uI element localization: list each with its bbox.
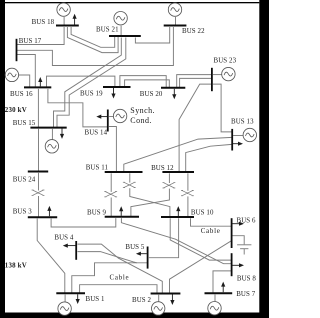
wire bus 21 generator stub	[120, 26, 122, 36]
bus 11 bar	[105, 171, 143, 173]
wire bus 16 generator stub	[19, 75, 30, 87]
load arrow bus 3	[47, 206, 51, 216]
svg-text:BUS 15: BUS 15	[13, 120, 36, 127]
wire bus 2 generator stub	[158, 295, 160, 302]
wire 14-16	[48, 89, 108, 127]
svg-text:BUS 22: BUS 22	[182, 28, 205, 35]
svg-text:BUS 7: BUS 7	[236, 291, 256, 298]
wire 3-9	[51, 218, 116, 227]
generator at bus 21	[114, 12, 127, 25]
reactor plate 2 at bus 6	[240, 248, 248, 250]
bus 23 bar	[211, 68, 213, 91]
wire 2-6	[170, 241, 232, 293]
wire 9-12 transformer upper lead	[168, 173, 170, 183]
wire 21-22	[135, 27, 169, 43]
wire 9-11 transformer lower lead	[110, 198, 112, 217]
generator at bus 7	[208, 302, 221, 315]
wire bus 15 generator stub	[51, 129, 53, 140]
svg-text:BUS 6: BUS 6	[237, 217, 257, 224]
bus 14 bar	[107, 110, 109, 132]
wire bus 6 reactor lead	[233, 236, 245, 245]
load arrow bus 2	[170, 295, 174, 306]
load arrow bus 6	[232, 222, 244, 226]
svg-text:Cond.: Cond.	[130, 116, 152, 125]
wire 19-20 circuit 2	[125, 80, 170, 87]
wire 12-13	[186, 144, 232, 171]
reactor tail stub at bus 6	[243, 249, 245, 255]
wire bus 13 generator stub	[233, 135, 243, 137]
wire 8-9	[121, 218, 231, 264]
bus 16 bar	[24, 86, 51, 88]
wire 17-18	[17, 27, 64, 45]
svg-text:BUS 14: BUS 14	[85, 130, 108, 137]
wire 19-20 circuit 1	[120, 76, 166, 88]
svg-text:BUS 19: BUS 19	[80, 91, 103, 98]
svg-text:BUS 16: BUS 16	[10, 91, 33, 98]
bus 3 bar	[28, 216, 57, 218]
svg-text:BUS 13: BUS 13	[231, 118, 254, 125]
wire 12-23	[179, 84, 212, 171]
generator at bus 23	[222, 67, 235, 80]
bus 19 bar	[103, 86, 131, 88]
svg-text:138 kV: 138 kV	[5, 262, 27, 269]
wire 9-12 transformer lower lead	[131, 189, 170, 217]
transformer 10-11	[123, 182, 136, 187]
wire 17-22	[17, 27, 173, 66]
load arrow bus 14	[96, 115, 107, 119]
wire 15-16	[37, 89, 39, 127]
load arrow bus 20	[172, 89, 176, 100]
wire 4-5 tap	[78, 252, 138, 263]
bus 22 bar	[164, 25, 187, 27]
bus 12 bar	[162, 171, 194, 173]
wire 11-13	[124, 137, 232, 171]
wire 15-24	[38, 129, 40, 171]
svg-text:BUS 4: BUS 4	[54, 235, 74, 242]
load arrow bus 10	[176, 206, 180, 216]
svg-text:BUS 2: BUS 2	[132, 297, 152, 304]
frame: right black bar	[259, 0, 269, 318]
wire 15-21 circuit 2	[57, 38, 126, 128]
load arrow bus 8	[232, 263, 244, 267]
generator at bus 18	[57, 3, 70, 16]
bus 20 bar	[161, 87, 185, 89]
frame: left black bar	[0, 0, 5, 318]
svg-text:BUS 24: BUS 24	[13, 177, 36, 184]
load arrow bus 1	[76, 294, 80, 304]
wire bus 23 generator stub	[213, 74, 222, 76]
generator at bus 15	[45, 140, 58, 153]
reactor plate 1 at bus 6	[237, 244, 251, 246]
svg-text:BUS 1: BUS 1	[86, 296, 106, 303]
bus 15 bar	[30, 127, 66, 129]
wire 1-5	[72, 263, 148, 293]
wire 10-11 transformer upper lead	[129, 173, 131, 182]
wire 18-21 circuit 1	[67, 27, 118, 53]
synchronous condenser at bus 14	[113, 109, 126, 122]
wire 16-19	[47, 76, 115, 87]
wire 10-11 transformer lower lead	[130, 188, 170, 217]
generator at bus 16	[5, 68, 18, 81]
svg-text:BUS 18: BUS 18	[32, 19, 55, 26]
bus 9 bar	[105, 216, 139, 218]
bus 1 bar	[56, 292, 85, 294]
bus 7 bar	[205, 292, 233, 294]
transformer 9-12	[163, 183, 176, 188]
wire 10-12 transformer lower lead	[187, 196, 189, 216]
svg-text:Synch.: Synch.	[130, 106, 155, 115]
svg-text:BUS 9: BUS 9	[87, 209, 107, 216]
wire 9-11 transformer upper lead	[110, 173, 112, 192]
generator at bus 2	[152, 302, 165, 315]
wire bus 7 generator stub	[214, 295, 216, 302]
wire bus 14 synchronous condenser stub	[109, 116, 114, 118]
svg-text:230 kV: 230 kV	[5, 107, 27, 114]
wire cable 6-10	[191, 218, 232, 226]
svg-text:BUS 20: BUS 20	[140, 91, 163, 98]
svg-text:BUS 10: BUS 10	[191, 209, 214, 216]
wire bus 1 generator stub	[64, 295, 66, 303]
wire 8-10	[170, 218, 232, 260]
svg-text:BUS 8: BUS 8	[237, 275, 257, 282]
wire 5-10	[149, 218, 179, 257]
wire 15-21 circuit 1	[54, 38, 122, 128]
bus 24 bar	[28, 171, 48, 173]
load arrow bus 13	[233, 142, 243, 146]
generator at bus 22	[168, 3, 181, 16]
bus 21 bar	[109, 35, 141, 37]
load arrow bus 19	[111, 88, 115, 99]
wire 20-23 circuit 2	[180, 78, 212, 87]
wire 18-21 circuit 2	[71, 27, 115, 47]
svg-text:BUS 23: BUS 23	[214, 58, 237, 65]
wire transformer X1 to bus 3	[38, 196, 40, 217]
wire bus 18 generator stub	[63, 17, 65, 25]
svg-text:Cable: Cable	[110, 274, 130, 282]
wire 20-23 circuit 1	[177, 75, 212, 88]
bus 6 bar	[231, 218, 233, 248]
svg-text:BUS 17: BUS 17	[19, 38, 42, 45]
wire 13-23	[213, 84, 232, 132]
bus 8 bar	[231, 253, 233, 276]
generator at bus 1	[58, 302, 71, 315]
load arrow bus 15	[60, 128, 64, 139]
bus 4 bar	[75, 241, 77, 260]
bus 18 bar	[56, 25, 79, 27]
bus 5 bar	[147, 247, 149, 269]
wire cable 1-2	[80, 285, 157, 294]
wire 16-17	[17, 55, 35, 87]
svg-text:BUS 12: BUS 12	[151, 165, 174, 172]
load arrow bus 7	[221, 282, 225, 293]
wire 2-4	[78, 244, 163, 293]
transformer 9-11	[104, 192, 117, 197]
wire 11-14	[109, 127, 117, 172]
transformer 3-24	[32, 190, 45, 195]
wire 24 to transformer X1	[38, 173, 40, 191]
svg-text:BUS 11: BUS 11	[86, 165, 109, 172]
load arrow bus 5	[136, 252, 147, 256]
svg-text:Cable: Cable	[201, 227, 221, 235]
wire bus 22 generator stub	[175, 17, 177, 25]
bus 13 bar	[231, 129, 233, 151]
wire 7-8	[213, 271, 231, 293]
bus 10 bar	[161, 216, 194, 218]
bus 2 bar	[151, 293, 181, 295]
wire 1-3	[37, 219, 65, 293]
generator at bus 13	[243, 128, 256, 141]
wire 10-12 transformer upper lead	[187, 173, 189, 191]
load arrow bus 4	[63, 244, 76, 248]
frame: bottom black strip	[0, 313, 269, 318]
svg-text:BUS 3: BUS 3	[13, 209, 33, 216]
load arrow bus 18	[73, 14, 77, 25]
svg-text:BUS 5: BUS 5	[125, 244, 145, 251]
load arrow bus 16	[38, 77, 42, 86]
transformer 10-12	[181, 190, 194, 195]
svg-text:BUS 21: BUS 21	[96, 27, 119, 34]
load arrow bus 9	[119, 206, 123, 216]
frame: top border line	[5, 2, 259, 3]
bus 17 bar	[16, 39, 18, 61]
